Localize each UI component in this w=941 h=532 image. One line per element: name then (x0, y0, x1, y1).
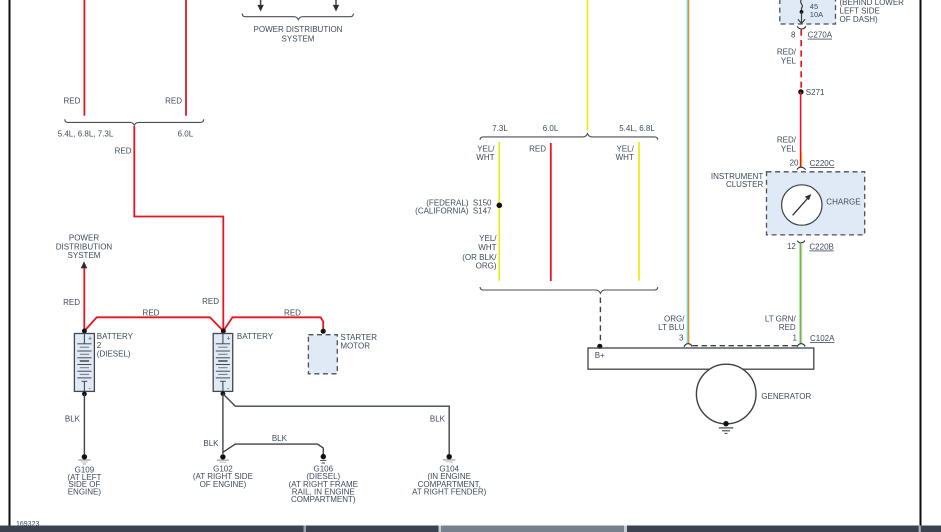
label YEL/WHT (OR BLK/ORG) (462, 234, 497, 270)
wire BLK battery 1 to G109 (83, 394, 85, 454)
node starter motor terminal (321, 329, 326, 334)
svg-text:CHARGE: CHARGE (826, 198, 860, 207)
label (BEHIND LOWER LEFT SIDE OF DASH) (840, 0, 905, 24)
arrow up to power distribution system (81, 261, 88, 268)
wire RED from brace to battery 2 (134, 126, 223, 329)
wire RED to starter motor (223, 317, 323, 331)
wire RED (6.0L) (550, 143, 552, 281)
svg-text:YEL: YEL (781, 57, 797, 66)
pin 1 (793, 334, 798, 343)
svg-text:+: + (88, 336, 92, 343)
label C102A (810, 334, 835, 343)
brace power distribution system (242, 14, 353, 20)
connector C220B notch (797, 241, 805, 243)
generator G1 body (696, 364, 756, 424)
label STARTER MOTOR (340, 333, 377, 351)
wire RED feed A (5.4L/6.8L/7.3L) (83, 0, 85, 116)
wire RED/YEL dashed (fuse to S271) (800, 30, 802, 91)
ground G104 (443, 454, 455, 462)
label BLK (G106) (272, 434, 288, 443)
wire BLK battery 2 to G102 (222, 394, 224, 454)
svg-text:MOTOR: MOTOR (340, 342, 370, 351)
svg-text:8: 8 (791, 30, 796, 39)
label S271 (806, 88, 825, 97)
svg-text:GENERATOR: GENERATOR (761, 392, 811, 401)
svg-text:RED: RED (143, 309, 160, 318)
svg-text:RED: RED (284, 309, 301, 318)
label BLK (G109) (65, 415, 81, 424)
svg-text:WHT: WHT (476, 153, 494, 162)
svg-text:AT RIGHT FENDER): AT RIGHT FENDER) (412, 487, 487, 496)
svg-text:SYSTEM: SYSTEM (282, 35, 315, 44)
label BATTERY 2 (DIESEL) (97, 332, 134, 359)
svg-text:RED: RED (115, 147, 132, 156)
node battery 2 negative (221, 391, 226, 396)
svg-text:6.0L: 6.0L (178, 129, 194, 138)
label BATTERY (237, 332, 274, 341)
instrument cluster box (767, 172, 865, 235)
wire RED to battery 1 (83, 268, 85, 330)
svg-text:3: 3 (679, 334, 684, 343)
wire LT GRN/RED (800, 243, 801, 344)
svg-text:(CALIFORNIA): (CALIFORNIA) (415, 206, 469, 215)
svg-text:RED: RED (165, 96, 182, 105)
ground G106 (320, 454, 326, 463)
svg-text:POWER: POWER (69, 234, 99, 243)
svg-text:S271: S271 (806, 88, 825, 97)
label INSTRUMENT CLUSTER (711, 172, 764, 189)
label BLK (G104) (430, 414, 446, 423)
brace engine variants (top) (480, 134, 658, 140)
fuse F45 element (798, 0, 805, 24)
label CHARGE (826, 198, 860, 207)
svg-text:RED: RED (779, 323, 796, 332)
svg-text:POWER DISTRIBUTION: POWER DISTRIBUTION (254, 25, 343, 34)
label BLK (G102) (203, 439, 219, 448)
arrow to power distribution system (top right) (333, 0, 339, 12)
svg-text:OF ENGINE): OF ENGINE) (200, 480, 247, 489)
wire RED/YEL solid (S271 to cluster) (801, 92, 802, 167)
ground G109 (78, 454, 90, 464)
label 5.4L, 6.8L, 7.3L (58, 129, 114, 138)
label S150 S147 (415, 198, 492, 215)
label fuse 45 10A (810, 2, 823, 19)
label RED (battery 1 feed) (63, 298, 80, 307)
connector C102A dashed strip (693, 345, 798, 347)
fuse box (dashed) (780, 0, 836, 24)
label C220C (810, 159, 835, 168)
ground G102 (217, 454, 229, 462)
label sheet number 169323 (16, 521, 39, 528)
svg-text:2: 2 (97, 341, 102, 350)
taskbar (0, 526, 941, 532)
generator housing B+ (588, 348, 814, 369)
gauge U1 charge indicator (782, 185, 822, 225)
brace grouping left feeds (65, 119, 204, 125)
label RED (battery 2 feed) (202, 297, 219, 306)
svg-text:WHT: WHT (616, 153, 634, 162)
svg-text:LEFT SIDE: LEFT SIDE (840, 6, 880, 15)
ground generator (719, 421, 733, 433)
svg-text:6.0L: 6.0L (543, 124, 559, 133)
label 6.0L (middle) (543, 124, 559, 133)
svg-text:5.4L, 6.8L: 5.4L, 6.8L (619, 124, 655, 133)
svg-text:RED/: RED/ (777, 135, 797, 144)
border frame left (9, 0, 11, 532)
connector C220C notch (797, 167, 806, 169)
node S271 (798, 89, 803, 94)
wire BLK battery 2 to G104 (223, 394, 449, 454)
node generator B+ junction (597, 344, 602, 349)
label RED (wire B) (165, 96, 182, 105)
svg-text:WHT: WHT (478, 243, 496, 252)
svg-text:BATTERY: BATTERY (237, 332, 274, 341)
wire ORG/LT BLU (687, 0, 688, 344)
label YEL/WHT (5.4L 6.8L) (616, 145, 635, 163)
label RED (6.0L) (529, 145, 546, 154)
svg-text:(DIESEL): (DIESEL) (97, 350, 131, 359)
connector C270A notch (797, 26, 806, 29)
pin 12 (787, 242, 796, 251)
svg-text:BATTERY: BATTERY (97, 332, 134, 341)
svg-text:12: 12 (787, 242, 796, 251)
wire RED feed B (6.0L) (185, 0, 187, 116)
label 6.0L (178, 129, 194, 138)
svg-text:C220B: C220B (809, 243, 833, 252)
label RED/YEL (upper) (777, 47, 797, 65)
label POWER DISTRIBUTION SYSTEM (top) (254, 25, 343, 44)
label B+ (595, 351, 605, 360)
label RED (starter feed) (284, 309, 301, 318)
label POWER DISTRIBUTION SYSTEM (left) (56, 234, 113, 261)
wire YEL/WHT (5.4L 6.8L) (638, 142, 640, 281)
svg-text:YEL: YEL (781, 145, 797, 154)
arrow to power distribution system (top left) (257, 0, 263, 12)
wire RED battery interconnect (84, 317, 223, 331)
label 5.4L, 6.8L (619, 124, 655, 133)
label C270A (808, 31, 833, 40)
svg-text:CLUSTER: CLUSTER (726, 180, 764, 189)
label RED (interconnect) (143, 309, 160, 318)
node battery 1 positive (82, 329, 87, 334)
label RED (wire A) (64, 96, 81, 105)
node battery 2 positive (221, 329, 226, 334)
label GENERATOR (761, 392, 811, 401)
border frame right (920, 0, 922, 532)
connector notch ORG at C102A (684, 344, 692, 347)
svg-text:B+: B+ (595, 351, 605, 360)
svg-text:C102A: C102A (810, 334, 835, 343)
svg-text:1: 1 (793, 334, 798, 343)
node S150/S147 (497, 203, 503, 209)
svg-text:OF DASH): OF DASH) (840, 15, 879, 24)
pin 3 (679, 334, 684, 343)
wire BLK branch to G106 (223, 444, 323, 454)
wire dashed to generator B+ (599, 298, 601, 345)
svg-text:C220C: C220C (810, 159, 835, 168)
label LT GRN/RED (765, 315, 797, 333)
label RED (drop wire) (115, 147, 132, 156)
svg-text:BLK: BLK (272, 434, 288, 443)
svg-text:ORG): ORG) (476, 261, 497, 270)
label G109 (67, 465, 101, 496)
connector notch GRN at C102A (797, 344, 805, 347)
svg-text:BLK: BLK (203, 439, 219, 448)
svg-text:COMPARTMENT): COMPARTMENT) (291, 495, 356, 504)
pin 20 (790, 159, 799, 168)
battery B2 (213, 334, 233, 393)
svg-text:RED: RED (64, 96, 81, 105)
svg-text:5.4L, 6.8L, 7.3L: 5.4L, 6.8L, 7.3L (58, 129, 114, 138)
svg-text:7.3L: 7.3L (492, 124, 508, 133)
svg-text:10A: 10A (810, 10, 823, 19)
label G104 (412, 465, 487, 497)
battery B1 (74, 334, 94, 393)
svg-text:YEL/: YEL/ (479, 234, 497, 243)
label G106 (289, 465, 358, 504)
svg-text:RED: RED (63, 298, 80, 307)
label YEL/WHT (7.3L) (476, 145, 495, 163)
wire YEL trunk (top middle) (587, 0, 589, 131)
brace engine variants (bottom) (480, 287, 658, 293)
svg-text:RED: RED (529, 145, 546, 154)
svg-text:RED/: RED/ (777, 47, 797, 56)
svg-text:RED: RED (202, 297, 219, 306)
svg-text:LT BLU: LT BLU (658, 323, 685, 332)
svg-text:S147: S147 (473, 206, 492, 215)
label ORG/LT BLU (658, 315, 685, 333)
svg-text:DISTRIBUTION: DISTRIBUTION (56, 242, 113, 251)
svg-text:ENGINE): ENGINE) (68, 488, 102, 497)
label RED/YEL (lower) (777, 135, 797, 153)
svg-text:BLK: BLK (430, 414, 446, 423)
pin 8 (791, 30, 796, 39)
label C220B (809, 243, 833, 252)
node battery 1 negative (82, 392, 87, 397)
starter motor (308, 335, 337, 374)
svg-text:20: 20 (790, 159, 799, 168)
svg-text:C270A: C270A (808, 31, 833, 40)
svg-text:BLK: BLK (65, 415, 81, 424)
svg-text:SYSTEM: SYSTEM (68, 251, 101, 260)
svg-text:+: + (227, 336, 231, 343)
label G102 (193, 465, 253, 489)
label 7.3L (492, 124, 508, 133)
wire YEL/WHT (7.3L) (498, 142, 500, 281)
